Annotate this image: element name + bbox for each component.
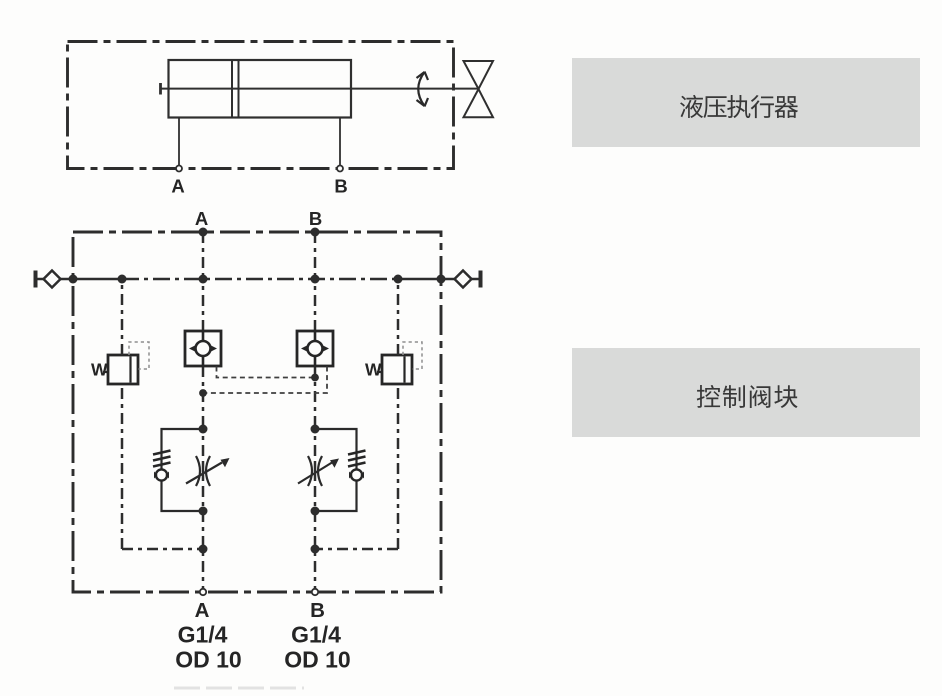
relief valve RV2 pilot loop (dashed)	[403, 342, 422, 369]
quick coupling diamond (left)	[44, 271, 61, 288]
pilot-operated check valve CV1 (line A)	[185, 331, 221, 366]
label B (valve block top port)	[309, 208, 322, 229]
svg-text:W: W	[91, 360, 108, 380]
svg-text:B: B	[334, 176, 347, 197]
svg-text:G1/4: G1/4	[178, 622, 228, 648]
right port end plate	[479, 271, 483, 288]
cylinder C1 body	[169, 60, 352, 118]
relief valve RV2 spring	[365, 360, 382, 380]
label A (valve block top port)	[195, 208, 208, 229]
wire: line B through throttle	[314, 429, 317, 592]
enclosure box: hydraulic actuator (dash-dot border)	[68, 42, 454, 169]
flow control loop B (solid rectangle branch)	[315, 429, 357, 511]
node A (valve block top port)	[199, 228, 208, 237]
relief valve RV1 spring	[91, 360, 108, 380]
svg-text:OD 10: OD 10	[175, 647, 241, 673]
wire: cylinder port B drop	[339, 118, 341, 166]
load symbol (bowtie)	[464, 61, 494, 117]
wire: right relief branch vertical	[315, 279, 398, 549]
label OD 10 (port B)	[284, 647, 350, 673]
label A (actuator port)	[171, 176, 184, 197]
pilot junction dot on line A	[199, 389, 207, 397]
pilot junction dot on line B	[311, 374, 319, 382]
wire: pressure bus (horizontal dash-dot line)	[37, 278, 479, 281]
text 控制阀块	[697, 385, 798, 408]
node B (valve block top port)	[311, 228, 320, 237]
wire: line B upper segments	[314, 232, 317, 429]
svg-text:A: A	[195, 599, 210, 622]
cylinder C1 rod	[161, 88, 479, 90]
loop A junction dots	[199, 425, 208, 516]
wire: left relief branch vertical	[122, 279, 203, 549]
left port end plate	[34, 271, 38, 288]
svg-text:B: B	[310, 599, 325, 622]
junction dots on bus	[69, 275, 446, 284]
port circle B (valve block bottom)	[312, 589, 318, 595]
label OD 10 (port A)	[175, 647, 241, 673]
junction dot line B lower	[311, 545, 320, 554]
enclosure box: control valve block (dash-dot border)	[73, 232, 441, 592]
check valve ball (loop A)	[156, 469, 167, 480]
throttle valve TH1 on line A	[186, 456, 222, 486]
wire: cylinder port A drop	[178, 118, 180, 166]
relief valve RV1 pilot loop (dashed)	[129, 342, 149, 369]
rod left end stop	[159, 83, 162, 95]
wire: line A through throttle	[202, 429, 205, 592]
relief valve RV2 (right) body	[382, 355, 412, 384]
svg-text:A: A	[195, 208, 208, 229]
label B (actuator port)	[334, 176, 347, 197]
cylinder C1 piston	[232, 60, 239, 118]
throttle valve TH2 on line B	[298, 456, 332, 486]
junction dot line A lower	[199, 545, 208, 554]
quick coupling diamond (right)	[455, 271, 472, 288]
port circle A (actuator)	[176, 166, 182, 172]
label B (bottom port)	[310, 599, 325, 622]
check valve ball (loop B)	[351, 469, 362, 480]
label panel: control valve block (gray box)	[572, 348, 920, 437]
port circle A (valve block bottom)	[200, 589, 206, 595]
check valve spring (loop A)	[153, 451, 171, 467]
rotation arrow	[417, 72, 429, 107]
svg-text:B: B	[309, 208, 322, 229]
relief valve RV1 (left) body	[108, 355, 138, 384]
svg-text:W: W	[365, 360, 382, 380]
flow control loop A (solid rectangle branch)	[162, 429, 204, 511]
port circle B (actuator)	[337, 166, 343, 172]
svg-text:A: A	[171, 176, 184, 197]
svg-text:OD 10: OD 10	[284, 647, 350, 673]
label G1/4 (port A)	[178, 622, 228, 648]
pilot line from CV1 to line B (dashed)	[217, 367, 316, 378]
check valve spring (loop B)	[348, 451, 366, 467]
relief valve RV2 element line	[403, 357, 405, 383]
faint cropped mark at bottom	[174, 687, 304, 690]
loop B junction dots	[311, 425, 320, 516]
label A (bottom port)	[195, 599, 210, 622]
svg-text:G1/4: G1/4	[291, 622, 341, 648]
relief valve RV1 element line	[129, 357, 131, 383]
label panel: hydraulic actuator (gray box)	[572, 58, 920, 147]
label G1/4 (port B)	[291, 622, 341, 648]
pilot line from CV2 to line A (dashed)	[203, 367, 327, 394]
wire: line A upper segments	[202, 232, 205, 429]
pilot-operated check valve CV2 (line B)	[297, 331, 333, 366]
text 液压执行器	[680, 95, 798, 118]
